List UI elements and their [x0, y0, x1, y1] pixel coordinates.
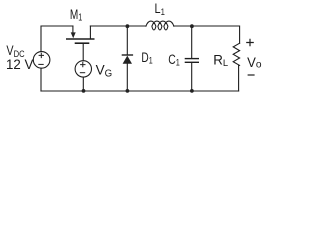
- node dot bottom rail / D1: [126, 89, 130, 93]
- label VO: [247, 55, 262, 71]
- label VG: [96, 62, 113, 79]
- source VG: [75, 61, 91, 77]
- svg-text:C1: C1: [168, 51, 180, 67]
- svg-text:RL: RL: [213, 52, 228, 69]
- wire top rail left (VDC to M1 left lead): [41, 26, 73, 52]
- wire RL bottom lead: [238, 65, 240, 91]
- svg-text:M1: M1: [70, 7, 83, 23]
- transistor M1: [67, 26, 94, 43]
- svg-text:L1: L1: [155, 1, 166, 17]
- svg-text:VG: VG: [96, 62, 113, 79]
- wire C1 branch top: [191, 26, 193, 58]
- VG minus sign: [80, 72, 84, 74]
- label VDC: [6, 43, 24, 59]
- inductor L1: [146, 21, 174, 30]
- wire top rail right (L1 to RL corner): [174, 26, 240, 43]
- svg-text:D1: D1: [141, 49, 153, 65]
- wire VDC bottom lead: [40, 68, 42, 91]
- wire top rail middle (M1 to L1): [90, 25, 145, 27]
- label RL: [213, 52, 228, 69]
- wire M1 gate lead: [82, 43, 84, 61]
- node dot top rail / C1: [190, 24, 194, 28]
- wire C1 branch bottom: [191, 63, 193, 92]
- node dot top rail / D1: [126, 24, 130, 28]
- label D1: [141, 49, 153, 65]
- wire bottom rail: [41, 90, 239, 92]
- wire D1 branch bottom: [126, 64, 128, 91]
- VDC minus sign: [39, 63, 43, 65]
- node dot bottom rail / C1: [190, 89, 194, 93]
- diode D1: [122, 55, 132, 64]
- label C1: [168, 51, 180, 67]
- VO minus sign: [248, 74, 254, 76]
- node dot bottom rail / VG: [82, 89, 86, 93]
- resistor RL: [233, 43, 239, 65]
- source VDC: [33, 52, 50, 69]
- VG plus sign: [81, 62, 85, 66]
- svg-text:Vo: Vo: [247, 55, 262, 71]
- label 12 V: [6, 57, 34, 72]
- svg-text:12 V: 12 V: [6, 57, 34, 72]
- label M1: [70, 7, 83, 23]
- VDC plus sign: [39, 53, 43, 57]
- wire D1 branch top: [126, 26, 128, 55]
- label L1: [155, 1, 166, 17]
- capacitor C1: [185, 59, 198, 63]
- wire VG bottom lead: [82, 77, 84, 91]
- VO plus sign: [247, 39, 253, 45]
